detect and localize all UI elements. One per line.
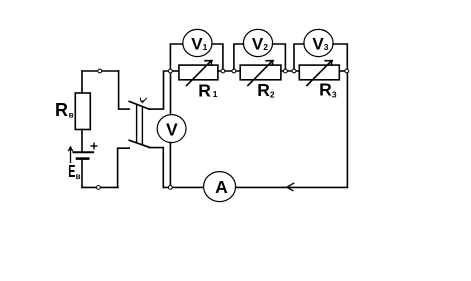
node rail right <box>345 69 349 73</box>
label V2 <box>252 35 268 54</box>
svg-text:1: 1 <box>213 89 218 99</box>
voltmeter V bottom lead <box>169 143 171 188</box>
wire V2 left lead <box>234 44 244 71</box>
switch linkage bar <box>137 104 143 145</box>
wire top rail segment 2 <box>218 70 240 72</box>
voltmeter V2 <box>243 29 272 56</box>
rheostat R2 <box>240 61 281 86</box>
label V <box>166 119 178 139</box>
node R1 right <box>221 69 225 73</box>
rheostat R1 <box>179 61 218 86</box>
label A <box>215 177 228 197</box>
svg-text:в: в <box>69 111 74 120</box>
svg-text:R: R <box>198 80 211 100</box>
svg-text:R: R <box>257 80 270 100</box>
label R3 <box>319 79 337 99</box>
wire bottom rail left segment <box>163 186 203 188</box>
svg-text:2: 2 <box>270 89 275 99</box>
label Eв <box>68 161 80 181</box>
svg-text:V: V <box>166 119 178 139</box>
svg-text:2: 2 <box>263 42 268 52</box>
wire top rail segment 4 <box>339 70 347 72</box>
node R3 left <box>292 69 296 73</box>
svg-text:R: R <box>319 79 332 99</box>
label R2 <box>257 80 275 100</box>
svg-text:E: E <box>68 161 75 181</box>
node bottom-left terminal <box>97 186 101 190</box>
wire left loop bottom <box>82 148 129 187</box>
label R1 <box>198 80 218 100</box>
voltmeter V top lead <box>170 71 172 115</box>
svg-text:R: R <box>55 100 68 120</box>
svg-text:в: в <box>76 172 81 181</box>
battery Eв <box>74 152 94 158</box>
wire V1 left lead <box>170 44 182 71</box>
wire V2 right lead <box>273 44 286 71</box>
svg-text:3: 3 <box>332 90 337 100</box>
switch S top blade <box>129 101 149 109</box>
node top-left terminal <box>98 69 102 73</box>
voltmeter V <box>157 115 186 143</box>
svg-text:V: V <box>252 35 264 54</box>
label V1 <box>191 35 207 54</box>
svg-text:1: 1 <box>203 42 208 52</box>
node R2 right <box>284 69 288 73</box>
wire top rail segment 1 <box>170 70 179 72</box>
wire between Rв and battery <box>81 130 83 153</box>
battery plus sign <box>91 143 97 149</box>
node bottom rail V junction <box>168 186 172 190</box>
svg-text:A: A <box>215 177 228 197</box>
ammeter A <box>204 172 236 202</box>
wire switch bottom contact to bottom rail <box>149 148 163 188</box>
wire bottom rail right segment <box>236 186 348 188</box>
current direction arrow <box>287 183 294 190</box>
svg-text:3: 3 <box>324 42 329 52</box>
switch S bottom blade <box>129 140 149 147</box>
wire V3 left lead <box>294 44 304 71</box>
wire right side descent <box>346 71 348 187</box>
svg-text:V: V <box>191 35 203 54</box>
label V3 <box>312 35 328 54</box>
wire switch top contact to rail <box>149 71 170 109</box>
wire V1 right lead <box>212 44 223 71</box>
wire top rail segment 3 <box>281 70 299 72</box>
resistor Rв <box>75 93 90 130</box>
label Rв <box>55 100 74 120</box>
node rail left <box>169 69 173 73</box>
voltmeter V3 <box>304 29 333 56</box>
node R2 left <box>232 69 236 73</box>
wire V3 right lead <box>333 44 347 71</box>
svg-text:V: V <box>312 35 324 54</box>
wire battery to bottom <box>81 159 83 188</box>
wire left loop top <box>82 71 129 109</box>
voltmeter V1 <box>183 29 212 56</box>
EMF direction arrow <box>69 147 73 163</box>
rheostat R3 <box>299 61 339 86</box>
switch movement arrow <box>140 98 146 103</box>
